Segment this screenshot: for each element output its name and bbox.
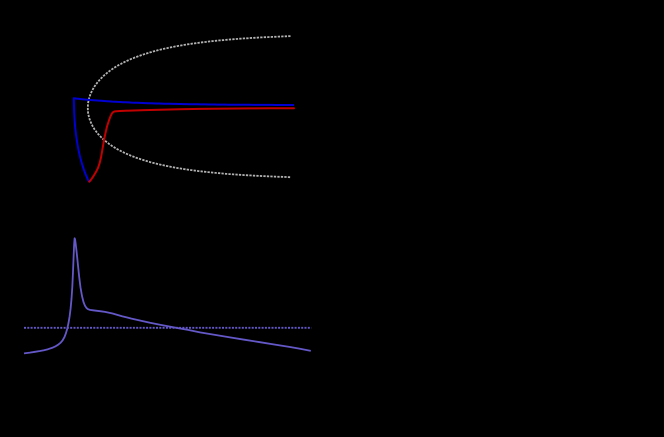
gray dotted envelope (mean ± std) top plot <box>88 36 291 177</box>
blue drop branch top plot <box>74 98 89 181</box>
slateblue rate curve bottom plot <box>24 238 311 353</box>
blue mean trace top plot <box>74 98 294 105</box>
dotted horizontal threshold line bottom plot <box>24 327 311 329</box>
red trace top plot <box>89 108 294 182</box>
